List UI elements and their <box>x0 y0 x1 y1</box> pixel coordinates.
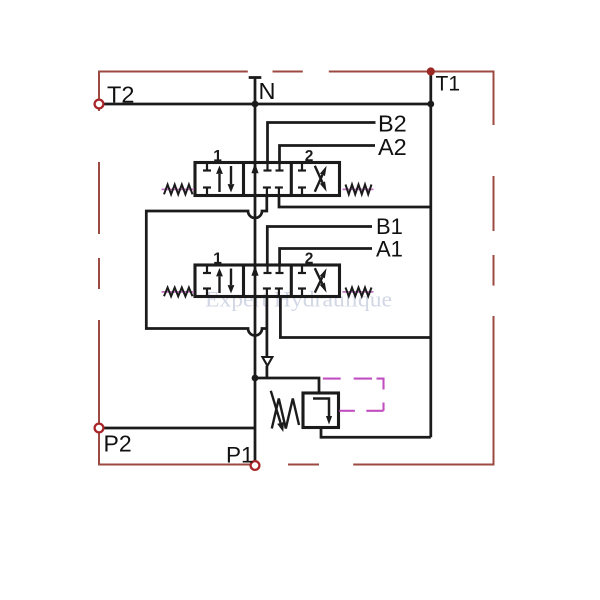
wire relief valve return to tank gallery <box>321 436 431 439</box>
pilot line from relief valve inlet (dashed) <box>323 379 384 411</box>
valve V1 left return spring centreline <box>162 188 195 190</box>
flow direction open arrow <box>262 357 272 366</box>
relief valve RV1 internal flow arrow <box>313 399 332 425</box>
port N plug symbol <box>249 78 262 105</box>
svg-text:2: 2 <box>305 148 314 165</box>
valve V2 position 2 cell: blocked ports and crossed arrows <box>298 265 327 297</box>
svg-text:B2: B2 <box>378 111 407 137</box>
wire T1 drop to tank gallery <box>429 72 432 438</box>
port T2 node <box>95 100 104 109</box>
wire pressure junction to relief valve inlet <box>255 378 319 393</box>
port T1 node <box>427 67 435 75</box>
junction tank line and T1 drop <box>427 101 434 108</box>
wire valve V2 tank return to gallery <box>280 297 430 338</box>
wire relief valve bottom port <box>320 428 323 439</box>
relief valve RV1 adjustable spring <box>272 399 299 429</box>
valve V1 position 2 cell: blocked ports and crossed arrows <box>298 163 327 196</box>
svg-text:T1: T1 <box>436 73 461 96</box>
wire valve V1 tank return to gallery <box>279 196 431 208</box>
valve V2 left return spring centreline <box>162 291 195 293</box>
port P1 node <box>251 461 260 470</box>
valve body enclosure right dashed boundary <box>493 72 495 466</box>
wire tank line T2 to T1 <box>99 103 431 106</box>
svg-text:P2: P2 <box>104 431 132 457</box>
valve V2 right return spring <box>346 288 372 297</box>
wire parallel feed gallery valve V1 to valve V2 with crossover hops <box>146 196 267 336</box>
valve V2 right return spring centreline <box>343 291 374 293</box>
svg-text:1: 1 <box>213 148 222 165</box>
valve V1 body <box>195 163 340 196</box>
valve body enclosure bottom dashed boundary <box>99 464 495 466</box>
wire port P2 to P1 <box>99 427 255 430</box>
svg-text:B1: B1 <box>376 214 403 239</box>
wire port A2 <box>280 146 376 163</box>
relief valve RV1 body <box>303 393 339 428</box>
junction N node <box>252 101 259 108</box>
valve V1 right return spring <box>346 185 372 195</box>
wire valve V2 feed port down to pressure junction <box>266 297 269 358</box>
svg-text:P1: P1 <box>226 443 254 468</box>
valve body enclosure top dashed boundary <box>99 71 495 73</box>
valve V2 left return spring <box>164 288 193 297</box>
valve V1 right return spring centreline <box>343 188 374 190</box>
port P2 node <box>95 424 104 433</box>
relief valve RV1 adjustment arrow <box>271 391 281 423</box>
wire port A1 <box>280 249 372 266</box>
wire port B1 <box>267 227 372 266</box>
wire port B2 <box>268 123 376 163</box>
valve V1 neutral cell: open-centre bypass arrow, blocked work ports <box>251 163 283 196</box>
junction pressure line and relief valve branch <box>252 375 259 382</box>
svg-text:1: 1 <box>213 251 222 268</box>
svg-text:A1: A1 <box>376 237 403 262</box>
svg-text:2: 2 <box>305 251 314 268</box>
svg-text:N: N <box>259 78 276 104</box>
svg-text:T2: T2 <box>107 82 134 108</box>
valve V1 left return spring <box>164 185 193 195</box>
valve body enclosure left dashed boundary <box>98 71 100 466</box>
svg-text:A2: A2 <box>378 134 407 160</box>
valve V1 position 1 cell: blocked ports and straight arrows <box>203 163 234 196</box>
valve V2 body <box>195 265 340 297</box>
wire pressure bypass gallery P1 up through both valves <box>254 104 257 463</box>
valve V2 neutral cell: open-centre bypass arrow, blocked work ports <box>251 265 283 297</box>
valve V2 position 1 cell: blocked ports and straight arrows <box>203 265 234 297</box>
